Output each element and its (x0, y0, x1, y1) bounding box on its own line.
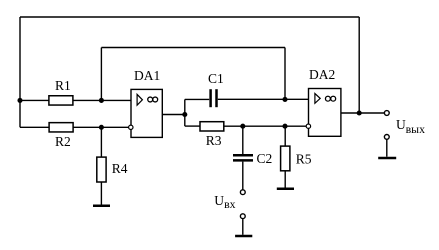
node: R2 / R4 junction (99, 125, 104, 130)
resistor R4 (97, 157, 106, 182)
wire: C2 top lead (242, 126, 244, 154)
wire: mid vertical (C1 row to R3 row) (184, 99, 186, 126)
wire: R4 top lead (100, 127, 102, 157)
op-amp DA2 (306, 67, 341, 136)
svg-text:U: U (396, 117, 406, 132)
wire: inner left vertical (100, 48, 102, 101)
node: C1 / inner feedback junction (282, 97, 287, 102)
svg-text:R4: R4 (112, 161, 128, 176)
op-amp DA1 (129, 68, 163, 137)
wire: R3 left lead (185, 125, 200, 127)
wire: inner right vertical (284, 48, 286, 100)
resistor R3 (200, 122, 224, 131)
svg-text:C2: C2 (257, 151, 273, 166)
wire: R4 bottom lead (100, 182, 102, 205)
wire: R2 row right to DA1 - input (73, 126, 129, 128)
ground: under R4 (93, 205, 110, 208)
wire: output ground lead (386, 139, 388, 156)
node: R1 / inner feedback junction (99, 98, 104, 103)
ground: under R5 (277, 188, 294, 191)
svg-text:R5: R5 (296, 151, 312, 166)
svg-text:R1: R1 (55, 78, 71, 93)
wire: DA1 output (162, 114, 185, 116)
wire: C2 bottom lead to input terminal (242, 162, 244, 190)
terminal: input top (240, 190, 245, 195)
wire: R1 row right to DA1 + input (73, 99, 131, 101)
node: output / outer feedback junction (357, 110, 362, 115)
node: DA1 output junction (182, 112, 187, 117)
wire: R2 row left (20, 126, 49, 128)
svg-text:DA2: DA2 (309, 67, 335, 82)
terminal: output ground (384, 135, 389, 140)
wire: R5 top lead (284, 126, 286, 146)
ground: under input terminal (235, 235, 252, 238)
terminal: input bottom (240, 214, 245, 219)
node: R3 / C2 junction (240, 124, 245, 129)
capacitor C2 (233, 154, 253, 157)
ground: under output terminal (378, 157, 396, 160)
wire: R5 bottom lead (284, 171, 286, 188)
wire: DA2 output (341, 112, 384, 114)
wire: outer feedback top (20, 16, 359, 18)
node: R3 row / R5 junction (282, 124, 287, 129)
svg-text:R2: R2 (55, 134, 71, 149)
svg-text:вых: вых (406, 122, 425, 136)
wire: R1 row left (20, 99, 49, 101)
wire: R3 row right to DA2 - input (224, 125, 306, 127)
wire: C1 right lead to DA2 + input (218, 98, 309, 100)
node: left bus / R1 junction (17, 98, 22, 103)
svg-text:R3: R3 (206, 133, 222, 148)
svg-text:C1: C1 (208, 71, 224, 86)
resistor R1 (49, 96, 73, 105)
terminal: output (384, 111, 389, 116)
wire: left vertical bus (19, 17, 21, 127)
svg-text:вх: вх (224, 197, 236, 211)
wire: inner feedback top (101, 47, 285, 49)
svg-text:U: U (214, 193, 224, 208)
resistor R5 (281, 146, 290, 171)
resistor R2 (49, 123, 73, 132)
capacitor C1 (209, 89, 212, 107)
wire: C1 left lead (185, 98, 209, 100)
wire: right vertical of outer feedback (358, 17, 360, 113)
wire: input ground lead (242, 219, 244, 235)
svg-text:DA1: DA1 (134, 68, 160, 83)
